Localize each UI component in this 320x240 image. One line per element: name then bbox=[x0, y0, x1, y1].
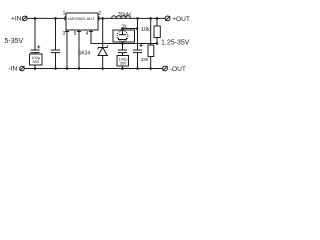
svg-text:-OUT: -OUT bbox=[170, 66, 186, 73]
svg-text:4: 4 bbox=[86, 31, 89, 37]
svg-text:330: 330 bbox=[141, 57, 149, 62]
svg-text:5-35V: 5-35V bbox=[5, 38, 24, 45]
svg-text:1: 1 bbox=[63, 10, 66, 16]
svg-text:LM2596S-ADJ: LM2596S-ADJ bbox=[68, 16, 95, 21]
svg-text:1.25-35V: 1.25-35V bbox=[161, 40, 190, 47]
svg-text:5: 5 bbox=[74, 31, 77, 37]
svg-text:+IN: +IN bbox=[11, 16, 22, 23]
svg-text:-IN: -IN bbox=[9, 65, 18, 72]
svg-text:10k: 10k bbox=[141, 27, 150, 33]
svg-text:SK34: SK34 bbox=[78, 50, 90, 56]
svg-text:30µH: 30µH bbox=[118, 12, 131, 18]
svg-text:+OUT: +OUT bbox=[172, 16, 190, 23]
svg-text:2: 2 bbox=[98, 11, 101, 17]
svg-text:35V: 35V bbox=[32, 59, 39, 64]
svg-text:3: 3 bbox=[62, 31, 65, 37]
svg-text:35V: 35V bbox=[120, 61, 127, 66]
svg-text:1k: 1k bbox=[122, 24, 128, 30]
